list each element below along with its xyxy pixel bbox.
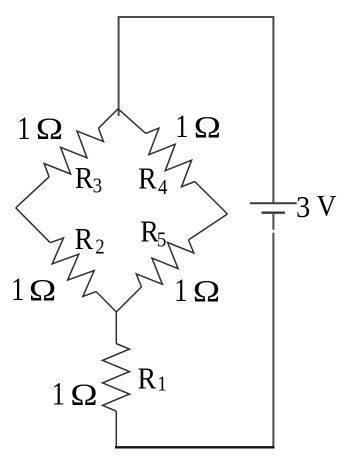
wire R4 to right node (195, 182, 228, 215)
wire left node to R2 (16, 208, 51, 243)
label 1 Ohm for R1 (52, 376, 98, 412)
label R5 (140, 215, 166, 252)
svg-text:V: V (317, 189, 337, 222)
svg-text:1: 1 (11, 271, 24, 307)
wire top-node to R4 (118, 109, 146, 134)
label R2 (75, 223, 105, 259)
wire R3 to left node (16, 177, 49, 208)
svg-text:1: 1 (174, 272, 187, 308)
wire bottom horizontal (115, 446, 275, 448)
wire right lower (272, 213, 274, 230)
wire right node to R5 (189, 214, 228, 240)
resistor R2 (50, 238, 96, 297)
resistor R4 (146, 128, 195, 187)
svg-text:4: 4 (158, 176, 167, 199)
resistor R5 (136, 240, 194, 287)
svg-text:1: 1 (175, 108, 188, 144)
label R4 (138, 162, 167, 199)
svg-text:3: 3 (296, 190, 310, 224)
svg-text:R: R (75, 223, 94, 257)
svg-text:Ω: Ω (193, 275, 220, 309)
label R1 (138, 362, 167, 396)
svg-text:1: 1 (52, 376, 65, 412)
svg-text:1: 1 (157, 372, 166, 395)
label 1 Ohm for R5 (174, 272, 220, 308)
label 1 Ohm for R3 (17, 110, 63, 146)
svg-text:1: 1 (17, 110, 30, 146)
wire bottom node to R1 (115, 312, 117, 344)
label 1 Ohm for R2 (11, 271, 56, 307)
resistor R1 (103, 344, 130, 412)
svg-text:2: 2 (95, 236, 104, 259)
wire R2 to bottom node (96, 292, 116, 312)
svg-text:R: R (138, 362, 157, 396)
resistor R3 (44, 128, 103, 177)
wire top-node to R3 (99, 109, 119, 129)
wire right lower 2 (272, 233, 274, 447)
wire top horizontal (119, 17, 274, 203)
svg-text:Ω: Ω (194, 110, 221, 144)
svg-text:Ω: Ω (29, 274, 56, 308)
battery V1 short plate (-) (262, 211, 286, 213)
svg-text:5: 5 (157, 229, 166, 252)
wire R1 to bottom wire (115, 411, 117, 447)
battery V1 long plate (+) (250, 202, 297, 204)
svg-text:Ω: Ω (36, 112, 63, 146)
node top (99, 109, 146, 134)
svg-text:Ω: Ω (70, 378, 97, 412)
label 1 Ohm for R4 (175, 108, 221, 144)
wire R5 to bottom node (116, 287, 141, 312)
svg-text:R: R (138, 162, 157, 196)
label R3 (75, 162, 102, 198)
svg-text:3: 3 (93, 175, 102, 198)
svg-text:R: R (75, 162, 94, 196)
label 3 V (296, 189, 337, 224)
